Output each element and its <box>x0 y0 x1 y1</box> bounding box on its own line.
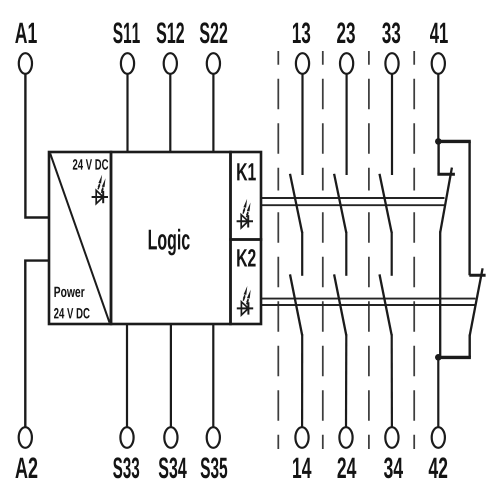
terminal 23 <box>340 53 353 74</box>
power supply block <box>49 152 111 324</box>
terminal 14 <box>295 427 308 448</box>
node junction top <box>435 138 442 145</box>
logic block <box>111 152 231 324</box>
terminal 24 <box>339 427 352 448</box>
terminal A1 <box>19 53 32 74</box>
label S12 <box>157 22 184 43</box>
wire A1 to power supply <box>25 74 49 218</box>
label 14 <box>293 458 311 478</box>
contact K2 41-42 fixed bar <box>469 274 485 277</box>
dashed separation line 3 <box>368 51 370 449</box>
terminal A2 <box>19 427 32 448</box>
dashed separation line 4 <box>413 51 415 449</box>
wire S12 to logic <box>169 74 171 152</box>
wire S33 to logic <box>126 324 128 427</box>
contact K2 41-42 (NC blade) <box>470 268 483 335</box>
wire 13 to contact <box>301 74 303 175</box>
wire node to 42 <box>437 357 439 427</box>
contact K1 33-34 (NO blade) <box>380 174 392 233</box>
contact K1 23-24 (NO blade) <box>334 174 346 233</box>
mechanical linkage K1 (double line) <box>261 198 445 205</box>
node junction bottom <box>435 354 442 361</box>
terminal 34 <box>385 427 398 448</box>
wire S34 to logic <box>170 324 172 427</box>
wire NC1 fixed <box>437 141 439 174</box>
label A1 <box>15 23 37 43</box>
terminal S33 <box>120 427 133 448</box>
label 23 <box>337 22 355 43</box>
wire bottom bar to node <box>438 356 471 359</box>
wire NC2 fixed vertical <box>468 141 470 275</box>
value label 24 V DC (power) <box>54 308 90 319</box>
wire A2 to power supply <box>25 261 49 428</box>
mechanical linkage K2 (double line) <box>261 299 476 305</box>
terminal S34 <box>164 427 177 448</box>
wire NC2 blade to bottom bar <box>469 335 471 358</box>
wire 33 to contact <box>391 74 393 175</box>
contact K2 33-34 (NO blade) <box>380 274 392 335</box>
contact K1 13-14 (NO blade) <box>290 174 302 233</box>
LED power indicator <box>92 175 108 204</box>
wire between contacts 13-14 <box>301 232 303 276</box>
label Logic <box>149 229 190 256</box>
wire contact to 24 <box>345 334 347 427</box>
terminal 42 <box>432 427 445 448</box>
label 33 <box>382 22 400 43</box>
label Power <box>54 287 84 297</box>
terminal S35 <box>207 427 220 448</box>
wire 41 to node <box>437 74 439 142</box>
wire between contacts 23-24 <box>345 232 347 276</box>
label 24 <box>338 457 357 478</box>
dashed separation line 1 <box>277 51 279 449</box>
label 42 <box>429 457 448 478</box>
contact K1 41-42 fixed bar <box>437 173 455 176</box>
wire node to NC branch 2 (top bar) <box>438 140 471 143</box>
terminal 41 <box>432 53 445 74</box>
value label 24 V DC (input) <box>73 159 108 170</box>
label A2 <box>15 457 37 478</box>
label S33 <box>113 457 139 478</box>
LED K1 <box>237 199 253 228</box>
wire S35 to logic <box>212 324 214 427</box>
label K2 <box>237 249 255 267</box>
label 13 <box>293 22 310 43</box>
white mask under K1 linkage <box>263 191 474 208</box>
relay K2 box <box>231 240 262 325</box>
terminal 33 <box>385 53 398 74</box>
wire contact to 34 <box>391 334 393 427</box>
label S34 <box>159 457 187 478</box>
contact K2 13-14 (NO blade) <box>290 274 302 335</box>
terminal S22 <box>207 53 220 74</box>
terminal 13 <box>296 53 309 74</box>
wire S11 to logic <box>126 74 128 152</box>
label 34 <box>384 457 403 478</box>
terminal S12 <box>164 53 177 74</box>
label S11 <box>113 22 140 43</box>
contact K2 23-24 (NO blade) <box>334 274 346 335</box>
label K1 <box>237 163 256 180</box>
contact K1 41-42 (NC blade) <box>440 168 452 233</box>
label S22 <box>200 22 227 43</box>
wire NC1 blade to bottom bar <box>439 231 441 357</box>
dashed separation line 2 <box>322 51 324 449</box>
power supply diagonal <box>50 154 109 323</box>
label 41 <box>430 23 448 43</box>
wire S22 to logic <box>212 74 214 152</box>
wire between contacts 33-34 <box>391 232 393 276</box>
LED K2 <box>237 286 253 315</box>
label S35 <box>201 457 228 478</box>
terminal S11 <box>121 53 134 74</box>
wire contact to 14 <box>301 334 303 427</box>
wire 23 to contact <box>346 74 348 175</box>
relay K1 box <box>231 152 262 240</box>
